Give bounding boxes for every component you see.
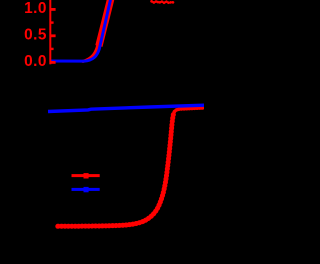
bottom panel: red flat tail under blue line (right side) xyxy=(174,108,204,112)
legend: red entry square marker xyxy=(84,173,89,178)
major tick 0.5 xyxy=(51,34,56,37)
legend: blue entry square marker xyxy=(84,187,89,192)
svg-text:1.0: 1.0 xyxy=(24,0,47,17)
y-axis (red) xyxy=(49,0,51,64)
legend: red entry line xyxy=(72,174,100,177)
top panel: red dotted saturation row xyxy=(152,1,175,3)
svg-text:0.0: 0.0 xyxy=(24,53,47,70)
bottom panel: red dotted exponential curve xyxy=(58,112,175,227)
top panel: blue curve xyxy=(50,0,111,61)
minor tick 0.75 xyxy=(51,21,54,23)
minor tick 0.25 xyxy=(51,48,54,50)
svg-text:0.5: 0.5 xyxy=(24,26,47,43)
major tick 1.0 xyxy=(51,8,56,11)
legend: blue entry line xyxy=(72,188,100,191)
major tick 0.0 xyxy=(51,61,56,64)
bottom panel: blue sloped line xyxy=(48,105,204,111)
top panel: red curve band (thick, under blue) xyxy=(83,44,98,61)
